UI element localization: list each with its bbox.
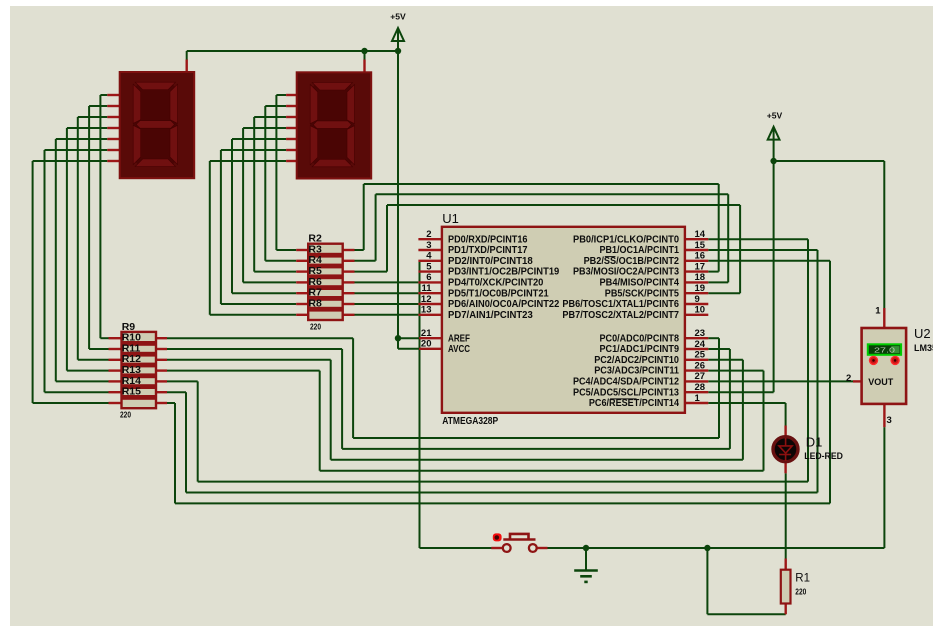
svg-text:2: 2	[426, 229, 431, 240]
svg-text:5: 5	[426, 261, 432, 272]
svg-text:ATMEGA328P: ATMEGA328P	[442, 416, 498, 427]
svg-text:10: 10	[695, 305, 706, 316]
svg-text:R15: R15	[122, 386, 141, 398]
svg-text:R1: R1	[795, 573, 810, 585]
svg-text:25: 25	[695, 350, 706, 361]
svg-text:12: 12	[421, 294, 432, 305]
svg-text:220: 220	[120, 410, 131, 419]
svg-text:PD7/AIN1/PCINT23: PD7/AIN1/PCINT23	[448, 309, 533, 321]
svg-text:+5V: +5V	[767, 112, 783, 121]
svg-text:14: 14	[695, 229, 706, 240]
svg-text:+5V: +5V	[390, 13, 406, 22]
svg-text:9: 9	[695, 294, 700, 305]
svg-text:23: 23	[695, 328, 706, 339]
svg-text:4: 4	[426, 251, 432, 262]
svg-text:27: 27	[695, 371, 706, 382]
svg-text:28: 28	[695, 382, 706, 393]
svg-text:2: 2	[846, 373, 851, 384]
svg-text:LED-RED: LED-RED	[804, 451, 843, 461]
svg-text:21: 21	[421, 328, 432, 339]
svg-text:1: 1	[875, 306, 881, 317]
svg-text:U1: U1	[442, 211, 459, 226]
svg-text:13: 13	[421, 305, 432, 316]
svg-text:U2: U2	[914, 326, 931, 341]
svg-text:16: 16	[695, 251, 706, 262]
svg-text:AVCC: AVCC	[448, 343, 470, 355]
svg-text:6: 6	[426, 272, 431, 283]
svg-text:LM35: LM35	[914, 343, 933, 353]
svg-text:15: 15	[695, 240, 706, 251]
svg-text:19: 19	[695, 283, 706, 294]
svg-text:26: 26	[695, 360, 706, 371]
svg-text:17: 17	[695, 261, 706, 272]
svg-text:220: 220	[310, 323, 321, 332]
svg-text:11: 11	[421, 283, 432, 294]
svg-text:220: 220	[795, 588, 806, 597]
svg-text:3: 3	[426, 240, 431, 251]
svg-text:D1: D1	[806, 435, 823, 450]
svg-text:R8: R8	[308, 297, 322, 309]
svg-text:1: 1	[695, 393, 701, 404]
svg-text:27.0: 27.0	[874, 345, 895, 354]
svg-text:VOUT: VOUT	[868, 377, 893, 387]
svg-text:PB7/TOSC2/XTAL2/PCINT7: PB7/TOSC2/XTAL2/PCINT7	[562, 309, 679, 321]
svg-text:18: 18	[695, 272, 706, 283]
svg-text:24: 24	[695, 339, 706, 350]
svg-text:20: 20	[421, 339, 432, 350]
svg-text:3: 3	[887, 415, 892, 426]
